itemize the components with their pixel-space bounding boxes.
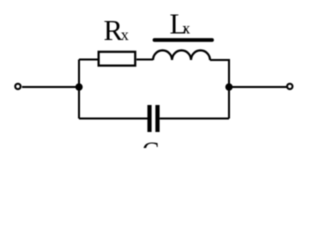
wire — [79, 59, 98, 61]
wire — [79, 118, 148, 120]
wire — [160, 118, 229, 120]
wire — [228, 59, 230, 119]
inductor Lx — [153, 50, 210, 60]
wire — [22, 86, 79, 88]
label Cx — [142, 137, 167, 166]
terminal right — [287, 84, 292, 89]
junction node left — [75, 83, 82, 90]
capacitor Cx — [147, 105, 159, 132]
svg-text:x: x — [121, 27, 129, 44]
svg-text:x: x — [182, 21, 190, 38]
junction node right — [225, 83, 232, 90]
svg-text:x: x — [159, 147, 167, 148]
svg-text:C: C — [142, 137, 159, 148]
wire — [210, 59, 229, 61]
terminal left — [15, 84, 20, 89]
wire — [229, 86, 287, 88]
wire — [78, 60, 80, 119]
inductor core bar — [155, 38, 213, 42]
wire — [137, 59, 154, 61]
label Rx — [104, 15, 129, 47]
resistor Rx — [99, 52, 136, 66]
label Lx — [170, 9, 191, 41]
